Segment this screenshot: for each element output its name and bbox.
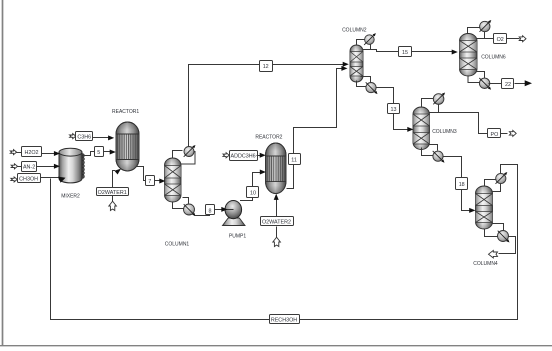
column COLUMN2 — [350, 45, 363, 82]
column COLUMN6 — [460, 34, 478, 77]
reboiler COLUMN4 — [498, 231, 510, 243]
wire O2WATER1 to REACTOR1 — [113, 169, 122, 188]
wire reboiler6 to 22 — [489, 83, 502, 85]
wire O2WATER1 arrow to label — [112, 196, 114, 202]
stream label CH3OH — [18, 174, 41, 183]
wire 8 to PUMP1 — [215, 207, 234, 212]
reactor REACTOR1 — [116, 122, 139, 171]
wire 10 to REACTOR2 — [253, 170, 266, 187]
stream label RECH3OH — [270, 315, 300, 324]
stream label 13 — [388, 104, 400, 114]
wire COLUMN3 top to condenser — [422, 99, 434, 107]
svg-text:PUMP1: PUMP1 — [229, 234, 246, 240]
wire AN-2 to MIXER2 — [37, 164, 61, 169]
stream label 10 — [247, 187, 259, 198]
wire COLUMN1 top to condenser — [173, 151, 183, 159]
stream label 12 — [260, 61, 273, 72]
mixer MIXER2 — [59, 148, 84, 183]
wire reboiler2 to 13 — [377, 88, 394, 104]
product arrow COLUMN4 bottoms — [489, 250, 498, 258]
svg-text:7: 7 — [148, 179, 151, 185]
svg-text:COLUMN1: COLUMN1 — [165, 242, 190, 248]
svg-text:PO: PO — [491, 132, 499, 138]
reboiler COLUMN6 — [479, 78, 491, 90]
feed arrow ADDC3H6 — [223, 153, 229, 158]
svg-text:COLUMN3: COLUMN3 — [432, 129, 457, 135]
product arrow PO — [509, 130, 516, 136]
stream label PO — [488, 129, 501, 138]
stream label O2WATER1 — [97, 188, 129, 196]
wire 12 to COLUMN2 — [273, 62, 349, 67]
svg-text:10: 10 — [250, 191, 256, 197]
wire condenser6 to O2 — [477, 32, 485, 39]
svg-text:COLUMN6: COLUMN6 — [481, 55, 506, 61]
wire MIXER2 to 5 — [83, 152, 95, 156]
stream label 7 — [146, 176, 155, 186]
condenser COLUMN6 — [480, 20, 492, 32]
wire 18 to COLUMN4 — [462, 190, 476, 213]
svg-text:8: 8 — [209, 208, 212, 214]
svg-text:O2WATER2: O2WATER2 — [262, 220, 291, 226]
wire O2WATER2 to REACTOR2 — [274, 194, 279, 217]
svg-text:O2: O2 — [497, 37, 504, 43]
stream label H2O2 — [17, 147, 42, 157]
wire condenser3 to PO — [430, 104, 439, 113]
wire H2O2 to MIXER2 — [42, 151, 61, 156]
stream label 22 — [502, 79, 514, 89]
wire REACTOR1 to 7 — [137, 167, 146, 181]
stream label ADDC3H6 — [230, 151, 258, 161]
reactor REACTOR2 — [266, 143, 287, 194]
svg-text:5: 5 — [97, 150, 100, 156]
wire reboiler1 to 8 — [194, 214, 210, 216]
wire COLUMN3 bottom to reboiler — [422, 148, 434, 156]
reboiler COLUMN2 — [366, 82, 378, 94]
frame left border — [2, 0, 4, 346]
reboiler COLUMN3 — [433, 151, 445, 163]
reboiler COLUMN1 — [184, 204, 196, 216]
feed arrow C3H6 — [70, 134, 76, 139]
stream label 15 — [399, 47, 412, 57]
wire PUMP1 to 10 — [240, 198, 253, 201]
svg-text:ADDC3H6: ADDC3H6 — [231, 154, 256, 160]
wire 11 to COLUMN2 — [294, 66, 348, 154]
svg-text:CH3OH: CH3OH — [19, 176, 38, 182]
wire condenser4 recycle to RECH3OH — [299, 165, 518, 320]
frame bottom border — [0, 345, 552, 347]
wire O2WATER2 arrow to label — [276, 227, 278, 238]
wire COLUMN4 bottom to reboiler — [485, 229, 498, 237]
svg-text:22: 22 — [505, 82, 511, 88]
stream label AN-2 — [18, 162, 37, 172]
feed arrow O2WATER2 — [273, 237, 281, 246]
wire PO to product arrow — [501, 133, 508, 135]
stream label C3H6 — [76, 132, 93, 141]
column COLUMN3 — [413, 107, 430, 150]
svg-text:12: 12 — [263, 64, 269, 70]
product arrow O2 — [519, 36, 526, 42]
svg-text:REACTOR2: REACTOR2 — [255, 135, 282, 141]
svg-text:C3H6: C3H6 — [77, 134, 91, 140]
svg-text:O2WATER1: O2WATER1 — [98, 190, 127, 196]
svg-text:18: 18 — [459, 182, 465, 188]
wire 7 to COLUMN1 — [155, 179, 166, 184]
wire 5 to REACTOR1 — [104, 150, 116, 155]
svg-text:RECH3OH: RECH3OH — [271, 318, 297, 324]
wire COLUMN2 bottom to reboiler — [357, 81, 367, 87]
stream label 5 — [95, 147, 104, 157]
wire COLUMN6 top to condenser — [468, 28, 480, 34]
condenser COLUMN1 — [181, 145, 196, 164]
condenser COLUMN2 — [364, 33, 376, 45]
wire condenser1 to 12 — [189, 65, 260, 147]
stream label 18 — [456, 178, 468, 190]
wire condenser2 to 15 — [363, 45, 371, 50]
wire reboiler3 to 18 — [443, 157, 462, 178]
wire C3H6 to REACTOR1 — [93, 135, 115, 140]
wire 13 to COLUMN3 — [394, 114, 414, 132]
wire reboiler4 to bottoms product — [499, 237, 516, 254]
feed arrow H2O2 — [10, 150, 16, 155]
stream label 8 — [206, 205, 215, 215]
stream label O2 — [494, 34, 507, 44]
svg-text:COLUMN4: COLUMN4 — [473, 261, 498, 267]
wire RECH3OH to CH3OH junction — [51, 179, 270, 320]
wire COLUMN2 top to condenser — [357, 40, 365, 45]
wire CH3OH + recycle into MIXER2 — [41, 177, 66, 183]
svg-text:AN-2: AN-2 — [23, 165, 35, 171]
svg-text:11: 11 — [291, 157, 297, 163]
svg-text:13: 13 — [391, 107, 397, 113]
feed arrow AN-2 — [11, 164, 17, 169]
wire ADDC3H6 to REACTOR2 — [257, 153, 266, 158]
svg-text:REACTOR1: REACTOR1 — [112, 109, 139, 115]
svg-text:H2O2: H2O2 — [24, 150, 38, 156]
svg-text:MIXER2: MIXER2 — [61, 194, 80, 200]
wire 22 to product arrow — [515, 80, 533, 86]
condenser COLUMN3 — [433, 93, 445, 105]
condenser COLUMN4 — [492, 172, 508, 192]
wire REACTOR2 to 11 — [287, 165, 294, 189]
wire O2 to product arrow — [507, 38, 520, 40]
column COLUMN1 — [165, 158, 182, 202]
wire COLUMN6 bottom to reboiler — [468, 77, 480, 83]
wire COLUMN1 bottom to reboiler — [173, 202, 184, 209]
wire COLUMN4 top to condenser — [485, 180, 496, 187]
svg-text:15: 15 — [402, 50, 408, 56]
stream label 11 — [289, 154, 301, 165]
pump PUMP1 — [223, 201, 246, 226]
feed arrow CH3OH — [11, 177, 17, 182]
column COLUMN4 — [476, 186, 493, 229]
wire 15 to COLUMN6 — [412, 50, 458, 55]
svg-text:COLUMN2: COLUMN2 — [342, 28, 367, 34]
feed arrow O2WATER1 — [109, 201, 117, 210]
stream label O2WATER2 — [261, 217, 294, 226]
